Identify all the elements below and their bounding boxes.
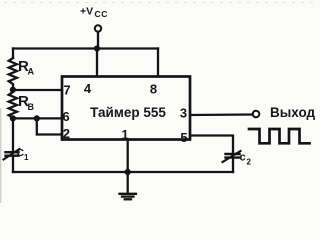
capacitor C1 — [4, 149, 20, 160]
label RB — [18, 93, 35, 112]
node RA-RB junction — [10, 87, 16, 93]
capacitor C2 — [223, 151, 241, 162]
wire C2 bottom lead — [232, 158, 234, 172]
resistor RB — [9, 92, 17, 118]
wire pin5 — [190, 136, 233, 154]
wire bottom rail — [13, 171, 233, 173]
svg-text:5: 5 — [180, 130, 187, 145]
wire Vcc lead — [97, 32, 99, 49]
svg-text:1: 1 — [121, 127, 128, 142]
label C2 — [240, 152, 252, 167]
svg-text:B: B — [28, 102, 35, 112]
wire top rail — [13, 47, 158, 49]
wire left rail bottom — [12, 156, 14, 172]
svg-text:6: 6 — [62, 109, 69, 124]
svg-text:8: 8 — [150, 81, 157, 96]
wire pin1 lead — [127, 140, 129, 173]
svg-text:Выход: Выход — [270, 105, 316, 120]
node Vcc junction — [94, 45, 100, 51]
svg-text:c: c — [240, 152, 246, 164]
label RA — [18, 58, 35, 77]
resistor RA — [9, 58, 17, 87]
node +Vcc terminal — [95, 25, 101, 31]
svg-text:4: 4 — [84, 81, 92, 96]
node pin2 tap — [34, 115, 40, 121]
scan texture top edge — [4, 2, 316, 4]
wire left rail top — [12, 49, 14, 59]
svg-text:1: 1 — [24, 153, 29, 162]
wire pin6 — [13, 117, 63, 119]
wire pin7 — [13, 89, 63, 91]
wire pin8 drop — [157, 49, 159, 79]
op-amp U1 timer 555 box — [62, 77, 190, 140]
waveform output square wave — [249, 129, 310, 143]
ground — [120, 172, 137, 199]
scan streak left edge — [0, 108, 1, 203]
node ground junction — [125, 169, 131, 175]
label C1 — [17, 147, 30, 162]
wire pin3 output — [190, 113, 253, 116]
svg-text:+V: +V — [80, 6, 93, 18]
wire pin2 jog — [37, 118, 63, 134]
svg-text:3: 3 — [180, 105, 187, 120]
wire pin4 lead — [96, 49, 98, 79]
wire left rail mid — [12, 118, 14, 152]
svg-text:CC: CC — [95, 9, 108, 19]
svg-text:2: 2 — [247, 158, 252, 167]
svg-text:7: 7 — [63, 82, 70, 97]
svg-text:2: 2 — [63, 126, 70, 141]
node output terminal — [253, 111, 260, 118]
node RB-C1 junction — [10, 115, 16, 121]
svg-text:A: A — [28, 67, 35, 77]
label +Vcc — [80, 6, 108, 20]
svg-text:Таймер 555: Таймер 555 — [90, 105, 166, 120]
